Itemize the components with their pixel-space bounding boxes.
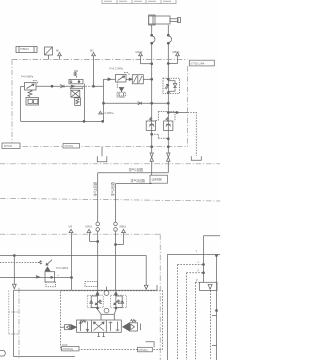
- svg-text:M3: M3: [69, 225, 73, 229]
- svg-text:07P2(b): 07P2(b): [139, 348, 148, 352]
- svg-text:0.2MPa: 0.2MPa: [105, 111, 114, 115]
- svg-text:K: K: [198, 269, 200, 273]
- svg-text:排气2回路: 排气2回路: [110, 181, 115, 196]
- svg-text:P: P: [196, 278, 198, 282]
- svg-text:切换回路: 切换回路: [152, 178, 163, 182]
- svg-text:07P02(b): 07P02(b): [63, 347, 74, 351]
- svg-text:排气1回路: 排气1回路: [129, 167, 144, 172]
- svg-text:P=0.4MPa: P=0.4MPa: [56, 266, 69, 270]
- svg-text:DVS: DVS: [62, 343, 68, 347]
- svg-text:排气1回路: 排气1回路: [93, 181, 98, 196]
- svg-text:MA23: MA23: [136, 50, 143, 54]
- svg-text:M2: M2: [90, 49, 94, 53]
- svg-text:M1: M1: [56, 49, 60, 53]
- svg-text:排气2回路: 排气2回路: [130, 178, 145, 183]
- svg-text:4.5MPa: 4.5MPa: [117, 96, 126, 99]
- svg-text:MA01: MA01: [86, 225, 93, 229]
- svg-text:07F02L: 07F02L: [65, 144, 74, 148]
- svg-text:P=0.17MPa: P=0.17MPa: [110, 67, 124, 71]
- svg-text:07T62 L/R#: 07T62 L/R#: [191, 61, 205, 65]
- svg-text:07B021: 07B021: [20, 47, 30, 51]
- svg-text:MB02: MB02: [173, 50, 180, 54]
- svg-text:P=0.9MPa: P=0.9MPa: [21, 75, 34, 79]
- svg-text:M7F02: M7F02: [4, 144, 13, 148]
- svg-text:MB01: MB01: [120, 225, 127, 229]
